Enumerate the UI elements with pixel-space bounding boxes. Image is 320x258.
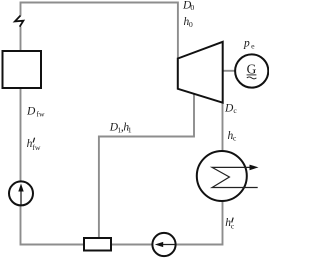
turbine: [178, 42, 223, 103]
svg-text:D: D: [26, 106, 36, 118]
wire: turbine to generator shaft: [223, 70, 236, 72]
wire: boiler down, bottom return line, condensate riser right: [21, 89, 223, 245]
cooling water out arrow: [250, 165, 259, 171]
generator circle: [235, 54, 268, 87]
svg-text:G: G: [247, 62, 257, 77]
feed pump (left, arrow up): [9, 181, 33, 205]
wire: turbine inlet + top main steam line + left drop to break: [21, 3, 178, 59]
condenser circle: [197, 151, 247, 201]
svg-text:p: p: [243, 38, 250, 50]
break symbol (lightning bolt): [15, 16, 24, 27]
wire: extraction line from turbine to heater: [99, 94, 194, 238]
svg-text:e: e: [251, 42, 255, 51]
condenser cooling water coil (sigma): [212, 167, 258, 187]
svg-text:c: c: [231, 222, 235, 231]
svg-text:c: c: [233, 134, 237, 143]
svg-text:fw: fw: [32, 143, 41, 152]
svg-text:c: c: [233, 106, 237, 115]
svg-text:0: 0: [190, 3, 194, 12]
boiler box: [3, 51, 42, 88]
svg-text:1: 1: [128, 125, 132, 134]
feedwater heater box: [84, 238, 111, 251]
svg-text:0: 0: [189, 20, 193, 29]
condensate pump (bottom, arrow left): [152, 233, 175, 256]
wire: left vertical below break to boiler: [20, 27, 22, 51]
svg-text:fw: fw: [36, 110, 45, 119]
